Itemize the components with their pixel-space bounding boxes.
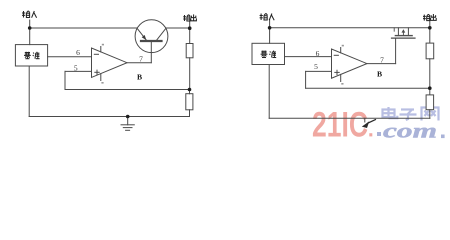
svg-text:21IC: 21IC [312, 106, 368, 145]
svg-text:5: 5 [74, 63, 78, 72]
svg-text:com: com [383, 121, 437, 143]
svg-text:6: 6 [76, 48, 80, 57]
svg-text:5: 5 [314, 62, 318, 71]
svg-text:6: 6 [316, 49, 320, 58]
svg-text:B: B [377, 70, 382, 79]
svg-text:7: 7 [380, 55, 384, 64]
svg-text:7: 7 [139, 54, 143, 63]
svg-text:B: B [137, 73, 142, 82]
